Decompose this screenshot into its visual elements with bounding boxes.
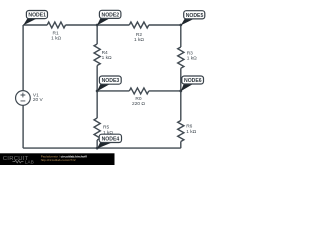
svg-text:1 kΩ: 1 kΩ xyxy=(102,55,112,61)
svg-text:R6: R6 xyxy=(186,123,192,129)
svg-text:NODE3: NODE3 xyxy=(102,78,120,84)
svg-text:1 kΩ: 1 kΩ xyxy=(186,129,196,135)
svg-text:http://circuitlab.com/c/7z2: http://circuitlab.com/c/7z2 xyxy=(41,158,76,162)
wire middle column xyxy=(96,25,98,148)
resistor R2 xyxy=(129,22,149,43)
junction dot NODE3 xyxy=(96,90,99,93)
wire bottom row xyxy=(23,147,181,149)
resistor R1 xyxy=(47,22,65,42)
junction dot NODE6 xyxy=(179,90,182,93)
node NODE1 xyxy=(23,11,47,26)
wire top row NODE1-NODE2 xyxy=(23,24,97,26)
svg-text:1 kΩ: 1 kΩ xyxy=(134,37,144,43)
svg-text:20 V: 20 V xyxy=(33,97,44,103)
resistor R6 xyxy=(178,121,197,142)
svg-text:NODE5: NODE5 xyxy=(186,13,204,19)
svg-text:1 kΩ: 1 kΩ xyxy=(187,55,197,61)
svg-text:220 Ω: 220 Ω xyxy=(132,101,145,107)
svg-text:NODE4: NODE4 xyxy=(102,137,120,143)
node NODE3 xyxy=(97,76,121,91)
svg-text:1 kΩ: 1 kΩ xyxy=(51,36,61,42)
svg-text:R5: R5 xyxy=(103,125,109,131)
resistor R3 xyxy=(178,47,197,68)
wire top row NODE2-NODE5 xyxy=(97,24,181,26)
svg-text:NODE1: NODE1 xyxy=(28,13,46,19)
svg-text:NODE2: NODE2 xyxy=(102,12,120,18)
resistor R4 xyxy=(94,44,112,66)
resistor R0 xyxy=(129,88,149,107)
junction dot NODE4 xyxy=(96,147,99,150)
node NODE4 xyxy=(97,134,122,148)
wire middle row NODE3-NODE6 xyxy=(97,90,181,92)
svg-text:NODE6: NODE6 xyxy=(184,78,202,84)
junction dot NODE5 xyxy=(179,24,182,27)
voltage source V1 xyxy=(16,91,44,106)
node NODE5 xyxy=(181,11,205,26)
wire left column with V1 xyxy=(22,25,24,148)
svg-text:LAB: LAB xyxy=(25,160,34,165)
resistor R5 xyxy=(94,118,113,140)
junction dot NODE2 xyxy=(96,24,99,27)
node NODE6 xyxy=(181,76,204,91)
watermark bar xyxy=(0,153,115,165)
wire right column xyxy=(180,25,182,148)
node NODE2 xyxy=(97,10,121,25)
